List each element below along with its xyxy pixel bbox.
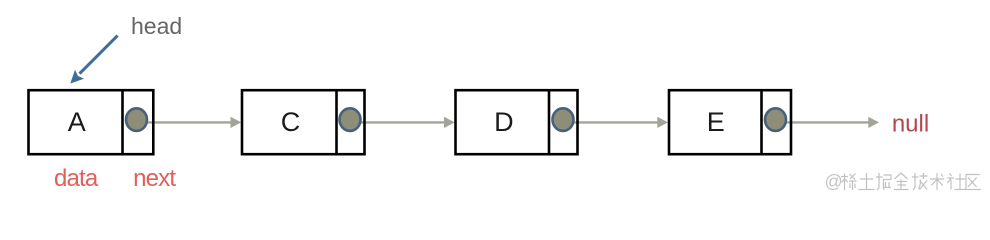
svg-text:C: C [281,107,301,137]
svg-text:@: @ [825,172,843,192]
svg-text:A: A [68,107,86,137]
svg-text:next: next [133,165,176,192]
svg-text:data: data [54,165,99,192]
svg-text:D: D [494,107,514,137]
svg-text:null: null [892,111,929,138]
svg-text:head: head [131,13,182,39]
svg-text:E: E [707,107,725,137]
